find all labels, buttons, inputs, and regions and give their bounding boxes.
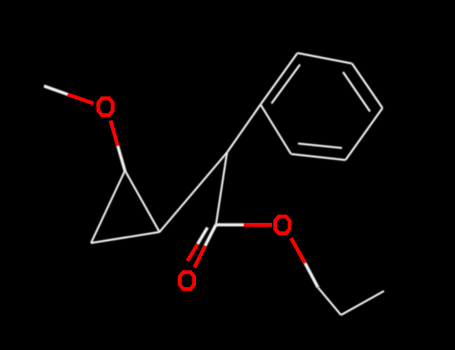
benzene edge P4-P5 [346,108,383,160]
atom O1 methoxy oxygen [98,98,112,115]
benzene edge P6-ipso [261,105,292,155]
bond C3-C4 cyclopropane to methine carbon [160,153,228,233]
benzene edge P3-P4 inner double line [343,72,370,112]
bond C2-C3 cyclopropane bottom edge [91,232,160,243]
benzene edge P5-P6 bottom [291,154,346,160]
benzene edge ipso-P2 inner double line [272,65,301,104]
bond O1-C1 red half [111,121,118,146]
bond O3-C6 red half [291,238,305,263]
bond O1-C1 white half [118,146,125,171]
atom O3 ester oxygen [275,217,289,234]
double bond C5=O2 main line white half [205,225,216,247]
bond C4-Ph ipso [227,105,261,153]
bond C1-C2 cyclopropane left edge [91,171,125,244]
bond C5-O3 red half [244,223,272,227]
atom O2 carbonyl oxygen [180,272,194,289]
bond C5-O3 white half [216,223,244,226]
double bond C5=O2 main line red half [195,246,206,268]
double bond C5=O2 inner line white half [198,228,208,245]
double bond C5=O2 inner line red half [188,244,198,261]
benzene edge P3-P4 [352,64,383,109]
bond CH3-O1 methyl white half [44,86,68,95]
benzene edge ipso-P2 [261,53,298,105]
bond CH3-O1 methyl red half [68,95,94,104]
bond C6-C7 [318,288,341,316]
bond O3-C6 white half [305,263,318,288]
benzene edge P5-P6 inner double line [298,144,342,149]
bond C4-C5 methine to carbonyl carbon [216,153,227,225]
bond C3-C1 cyclopropane right edge [125,171,160,233]
bond C7-C8 [341,291,384,315]
benzene edge P2-P3 top [298,53,353,64]
